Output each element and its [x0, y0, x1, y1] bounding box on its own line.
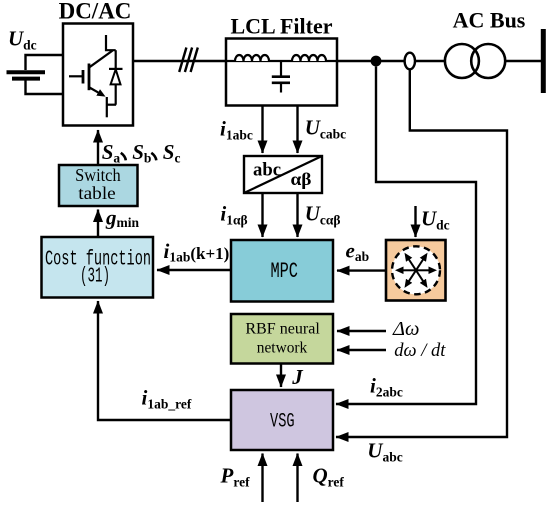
wire LCL to junction — [337, 60, 371, 62]
wire RBF to VSG arrow — [280, 364, 282, 388]
svg-text:αβ: αβ — [291, 169, 312, 189]
space vector block — [386, 240, 446, 301]
wire switch to inverter arrow — [97, 130, 99, 165]
wire MPC to cost function — [157, 269, 231, 271]
cost function block — [42, 237, 154, 298]
capacitor C — [272, 61, 290, 93]
three-phase slashes — [179, 48, 198, 73]
wire Pref arrow — [261, 454, 263, 503]
wire sensor to transformer — [415, 60, 445, 62]
transistor IGBT — [69, 35, 116, 117]
wire transformer to bus — [505, 60, 541, 62]
wire gmin arrow — [97, 210, 99, 238]
abc to alpha-beta transform block — [244, 156, 322, 193]
junction node — [371, 56, 382, 67]
inductor L1 — [235, 55, 269, 61]
wire VSG to cost function — [98, 301, 231, 420]
svg-text:LCL Filter: LCL Filter — [230, 14, 332, 39]
RBF neural network block — [231, 314, 333, 364]
AC bus bar — [541, 29, 546, 93]
svg-text:RBF neural: RBF neural — [245, 320, 320, 337]
wire junction down to i2abc into VSG — [336, 67, 476, 405]
wire eab arrow — [337, 269, 386, 271]
MPC block — [231, 240, 333, 302]
VSG block — [231, 390, 333, 450]
transformer — [445, 44, 479, 78]
svg-text:VSG: VSG — [270, 410, 295, 433]
wire i1ab arrow — [261, 194, 263, 238]
wire sensor down to Uabc into VSG — [336, 70, 507, 438]
svg-text:abc: abc — [253, 159, 281, 180]
wire Ucabc arrow — [296, 106, 298, 153]
wire junction to sensor — [381, 60, 405, 62]
svg-text:MPC: MPC — [270, 259, 298, 284]
svg-text:(31): (31) — [80, 265, 110, 289]
svg-text:AC Bus: AC Bus — [453, 8, 526, 33]
wire through LCL — [226, 60, 337, 62]
svg-text:Δω: Δω — [392, 318, 420, 340]
battery Udc — [7, 55, 64, 94]
wire domega/dt arrow — [337, 349, 386, 351]
wire delta omega arrow — [337, 330, 386, 332]
sensor ellipse — [405, 53, 415, 70]
diode freewheel — [109, 50, 123, 104]
wire i1abc arrow — [261, 106, 263, 153]
inverter DC/AC box — [63, 24, 133, 126]
LCL filter box — [226, 39, 337, 106]
wire Ucab arrow — [296, 194, 298, 238]
switch table block — [59, 165, 138, 206]
svg-text:DC/AC: DC/AC — [59, 0, 132, 24]
svg-text:table: table — [78, 183, 116, 203]
svg-text:J: J — [291, 365, 304, 389]
wire Udc arrow — [414, 206, 416, 237]
wire Qref arrow — [296, 454, 298, 503]
inductor L2 — [292, 55, 326, 61]
wire inverter to LCL — [133, 60, 226, 62]
svg-text:dω / dt: dω / dt — [394, 341, 446, 361]
svg-text:network: network — [257, 339, 308, 356]
